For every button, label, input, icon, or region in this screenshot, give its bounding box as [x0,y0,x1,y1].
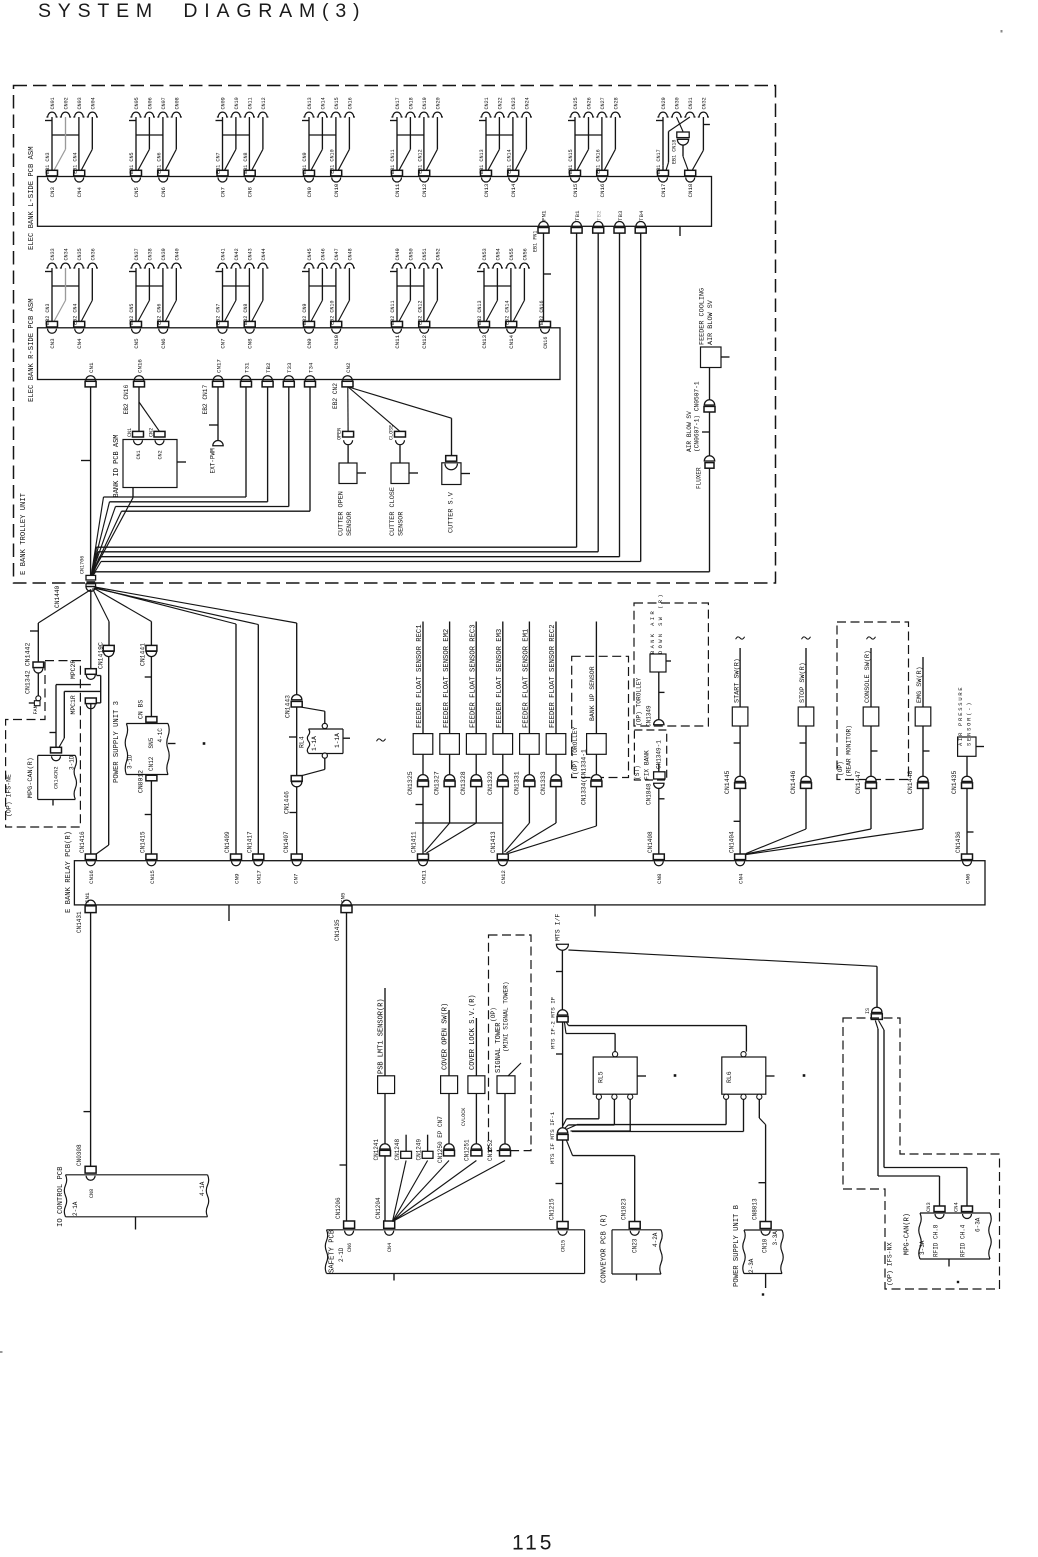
svg-text:CN8: CN8 [89,1189,95,1198]
wire CN8012 to CN1415 [145,781,152,854]
connector CN1206 on safety PCB [335,1197,355,1252]
svg-text:CN48: CN48 [347,248,353,260]
wire CN1706 to CN1441 [94,588,152,646]
svg-text:CN1252: CN1252 [487,1139,494,1161]
svg-text:CN6: CN6 [160,338,167,349]
connector TB1 on L-side bus bottom [571,210,582,233]
connector TB4 on L-side bus bottom [635,210,646,233]
svg-text:CN1325: CN1325 [407,771,414,795]
svg-text:CN2: CN2 [149,428,155,437]
svg-text:CN55: CN55 [509,248,515,260]
svg-text:CN1404: CN1404 [728,831,735,853]
svg-text:CN54: CN54 [495,248,501,260]
connector CN1248 stub [394,1135,412,1161]
svg-text:CN45: CN45 [307,248,313,260]
svg-text:2-1A: 2-1A [72,1201,79,1216]
connector group CN33-CN36 (EB2 CN3,EB2 CN4) [45,248,98,349]
svg-text:CN1431: CN1431 [76,911,83,933]
svg-text:EB1 CN10: EB1 CN10 [329,149,335,173]
connector fluxer [696,412,715,489]
svg-text:CN7: CN7 [220,338,227,349]
svg-text:DOWN SW (R): DOWN SW (R) [658,592,664,654]
svg-text:SENSOR(-): SENSOR(-) [967,701,973,746]
svg-text:CN1023: CN1023 [621,1198,628,1220]
svg-text:CN1215: CN1215 [549,1198,556,1220]
svg-text:EB2 CN10: EB2 CN10 [329,300,335,324]
svg-text:CN22: CN22 [497,97,503,109]
PSB LMT1 sensor(R) [373,988,395,1221]
svg-text:COVER OPEN SW(R): COVER OPEN SW(R) [442,1003,450,1070]
svg-text:CN1446: CN1446 [790,770,797,794]
wire feeder sensors to CN1411 [415,787,503,854]
svg-text:CN3: CN3 [926,1202,932,1212]
svg-text:CN06: CN06 [147,97,153,109]
connector CN1416 on relay bus [79,831,96,884]
continuation dot [203,742,206,745]
svg-text:CN1417: CN1417 [247,831,254,853]
svg-text:CN12: CN12 [500,870,507,884]
svg-text:T31: T31 [243,362,250,373]
svg-text:CN13: CN13 [483,183,490,197]
svg-text:CN20: CN20 [435,97,441,109]
svg-text:FAN: FAN [33,705,39,714]
svg-text:CN31: CN31 [688,97,694,109]
connector CN1204 on safety PCB [375,1197,395,1252]
svg-text:115: 115 [512,1532,554,1555]
svg-text:FIX BANK: FIX BANK [644,750,651,780]
svg-text:CN7: CN7 [220,187,227,198]
svg-text:CN1333: CN1333 [540,771,547,795]
svg-text:CN11: CN11 [420,870,427,884]
wire MTS IF-2 to RL5 RL6 [556,1022,746,1127]
svg-text:(ST): (ST) [634,765,641,780]
wire MTS IF-1 to CN1215 [556,1140,563,1221]
svg-text:CN50: CN50 [408,248,414,260]
svg-text:CN4: CN4 [76,338,83,349]
svg-text:EB1 CN8: EB1 CN8 [243,152,249,173]
feeder float sensor em1 [513,622,539,796]
svg-text:EB2 CN14: EB2 CN14 [504,300,510,324]
continuation dot [803,1074,806,1077]
connector CN1848 fix bank [646,764,666,805]
connector T31 on R-side bus bottom [241,362,252,387]
connector air blow SV (CN0607-1) [686,368,715,453]
relay RL6 [722,1052,775,1100]
svg-text:MPC1R: MPC1R [70,695,77,714]
svg-text:CN8: CN8 [247,338,254,349]
svg-text:CN11: CN11 [394,183,401,197]
feeder float sensor rec3 [460,622,486,796]
connector group CN41-CN44 (EB2 CN7,EB2 CN8) [216,248,269,349]
svg-text:CN5: CN5 [133,187,140,198]
svg-text:CN1248: CN1248 [394,1138,401,1160]
svg-text:BANK ID PCB ASM: BANK ID PCB ASM [113,434,121,497]
wire feeder sensors to CN1413 [503,787,556,854]
svg-text:EXT-PWM: EXT-PWM [209,448,216,474]
svg-text:3-3A: 3-3A [919,1240,926,1255]
connector CN1023 on conveyor PCB [621,1198,641,1229]
svg-text:CN1331: CN1331 [513,771,520,795]
svg-text:CN34: CN34 [64,248,70,260]
svg-text:CN23: CN23 [511,97,517,109]
feeder float sensor rec2 [540,622,566,796]
svg-text:EB2 CN17: EB2 CN17 [202,385,209,415]
wire CN1431 to CN0308 [84,913,91,1167]
svg-text:BANK UP SENSOR: BANK UP SENSOR [589,666,596,721]
svg-text:EB2 CN9: EB2 CN9 [302,303,308,324]
svg-text:EB1 CN5: EB1 CN5 [129,152,135,173]
svg-text:CN28: CN28 [613,97,619,109]
wire IS to CN3 [875,1020,939,1206]
connector group CN05-CN08 (EB1 CN5,EB1 CN6) [129,97,182,197]
svg-text:EB1 CN17: EB1 CN17 [656,149,662,173]
svg-text:CN09: CN09 [221,97,227,109]
svg-text:2-3A: 2-3A [748,1258,755,1273]
svg-text:CN1445: CN1445 [724,770,731,794]
wire TB4 to CN1706 [92,233,641,576]
connector group CN53-CN56 (EB2 CN13,EB2 CN14) [477,248,530,349]
svg-text:FLUXER: FLUXER [696,467,703,489]
svg-text:CN2: CN2 [345,362,352,373]
wire fluxer to CN1706 [93,468,710,576]
svg-text:CN11: CN11 [247,97,253,109]
svg-text:CN8012: CN8012 [138,770,145,793]
ELEC BANK L-SIDE PCB ASM bus bar [28,146,712,250]
svg-text:CN0308: CN0308 [76,1144,83,1166]
svg-text:CN21: CN21 [484,97,490,109]
svg-text:CN27: CN27 [600,97,606,109]
svg-text:CONVEYOR PCB (R): CONVEYOR PCB (R) [601,1214,609,1283]
wire MPC2R loop to MPC1R [96,676,100,703]
ELEC BANK R-SIDE PCB ASM bus bar [28,298,560,402]
connector CN1409 on relay bus [224,831,241,884]
svg-text:EB2 CN12: EB2 CN12 [417,300,423,324]
svg-text:CN BS: CN BS [138,700,145,719]
connector T34 on R-side bus bottom [305,362,316,387]
svg-text:TB1: TB1 [574,210,581,221]
svg-text:FEEDER FLOAT SENSOR EM3: FEEDER FLOAT SENSOR EM3 [496,629,504,728]
svg-text:CN42: CN42 [234,248,240,260]
svg-text:CN1443: CN1443 [285,695,292,718]
svg-text:(REAR MONITOR): (REAR MONITOR) [846,725,853,777]
svg-text:CN1334(CN1334-1: CN1334(CN1334-1 [581,749,588,805]
wire MTS I/F to IS [556,950,877,1010]
(OP) REAR MONITOR dashed enclosure [837,622,909,780]
svg-text:CN1441: CN1441 [140,643,147,666]
svg-text:CN1416: CN1416 [79,831,86,853]
svg-text:CN4: CN4 [738,873,745,884]
EXT-PWM connector [209,387,223,474]
air pressure sensor(-) [951,686,984,854]
svg-text:CN8: CN8 [247,187,254,198]
wire CN1706 to MPC2R [90,590,92,669]
svg-text:E BANK TROLLEY UNIT: E BANK TROLLEY UNIT [20,492,28,575]
svg-text:EB2 CN16: EB2 CN16 [539,300,545,324]
svg-text:CN11: CN11 [394,334,401,348]
connector TB2 on L-side bus bottom [593,210,604,233]
svg-text:(OP) IFS-NX: (OP) IFS-NX [887,1242,894,1286]
wire CN1 to CN1706 [81,387,91,575]
connector group CN29-CN32 (EB1 CN17,EB1 CN18) [656,97,710,197]
svg-text:MTS IF-2 MTS IF: MTS IF-2 MTS IF [550,996,557,1049]
wire CN1204 fan to cover/limit sensors [393,1161,506,1222]
svg-text:CN04: CN04 [90,97,96,109]
svg-text:PSB LMT1 SENSOR(R): PSB LMT1 SENSOR(R) [378,998,386,1074]
bank ID PCB ASM [113,387,186,498]
svg-text:CN4: CN4 [76,187,83,198]
svg-text:CN1328: CN1328 [460,771,467,795]
svg-text:EB1 CN12: EB1 CN12 [417,149,423,173]
cutter close sensor [389,425,418,536]
svg-text:CN01: CN01 [50,97,56,109]
svg-text:CN56: CN56 [522,248,528,260]
svg-text:EB1 CN11: EB1 CN11 [390,149,396,173]
svg-text:CN41: CN41 [221,248,227,260]
svg-text:CN1435: CN1435 [951,770,958,794]
connector CN4 on MPG-CAN [954,1202,973,1218]
connector CN0308 [76,1144,96,1198]
svg-text:CN2: CN2 [158,450,164,459]
svg-text:CN49: CN49 [395,248,401,260]
svg-text:POWER SUPPLY UNIT 3: POWER SUPPLY UNIT 3 [113,701,121,783]
E BANK RELAY PCB(R) bus bar [65,831,985,921]
connector CN8013 on power supply unit B [752,1198,772,1235]
svg-text:POWER SUPPLY UNIT B: POWER SUPPLY UNIT B [733,1204,741,1287]
svg-text:CN3: CN3 [49,338,56,349]
svg-text:TB4: TB4 [638,210,645,221]
wire CN1435 to CN1206 [340,913,347,1221]
svg-text:(OP): (OP) [490,1007,497,1022]
svg-text:CN10: CN10 [234,97,240,109]
connector CN1415 on relay bus [140,831,157,884]
svg-text:CN9: CN9 [233,873,240,884]
connector CN1215 on safety PCB [549,1198,569,1252]
connector T33 on R-side bus bottom [283,362,294,387]
connector CN1443 [285,695,303,776]
svg-text:(CN0607-1) CN0507-1: (CN0607-1) CN0507-1 [694,381,701,452]
connector group CN01-CN04 (EB1 CN3,EB1 CN4) [45,97,98,197]
svg-text:FEEDER COOLING: FEEDER COOLING [698,288,706,345]
wire MPC to MPG-CAN connector [50,685,101,749]
power supply unit B box [733,1204,783,1288]
svg-text:CN53: CN53 [482,248,488,260]
svg-text:1-1A: 1-1A [311,736,318,751]
svg-text:CN6: CN6 [160,187,167,198]
svg-text:CN46: CN46 [320,248,326,260]
EMG SW(R) [746,657,931,855]
safety PCB box [325,1229,584,1280]
svg-text:IS: IS [865,1008,871,1014]
svg-text:CN1409: CN1409 [224,831,231,853]
svg-text:CN14: CN14 [320,97,326,109]
connector CN1249 stub [415,1135,433,1161]
svg-text:4-1C: 4-1C [157,728,164,743]
svg-text:CUTTER CLOSE: CUTTER CLOSE [389,487,397,536]
svg-text:CN1329: CN1329 [487,771,494,795]
svg-text:EB1 CN16: EB1 CN16 [595,149,601,173]
wire CN1446 to CN1407 [290,787,297,854]
svg-text:CN02: CN02 [64,97,70,109]
connector CN17 on R-side bus bottom (EB2 CN17) [202,359,224,415]
svg-text:CN44: CN44 [261,248,267,260]
svg-text:TB2: TB2 [265,362,272,373]
svg-text:CN1448: CN1448 [907,770,914,794]
svg-text:RL6: RL6 [726,1071,733,1083]
svg-text:CN1251: CN1251 [463,1139,470,1161]
svg-text:CVLOCK: CVLOCK [461,1107,467,1126]
svg-text:CN1435: CN1435 [334,919,341,941]
svg-text:EB1 CN13: EB1 CN13 [479,149,485,173]
svg-text:CN52: CN52 [435,248,441,260]
svg-text:CN32: CN32 [701,97,707,109]
svg-text:CN24: CN24 [524,97,530,109]
svg-text:CN1: CN1 [127,428,133,437]
svg-text:EB2 CN7: EB2 CN7 [216,303,222,324]
svg-text:CN10: CN10 [762,1238,769,1253]
svg-text:CN8013: CN8013 [752,1198,759,1220]
wire EB2 CN2 fan to cutter sensors [348,387,452,456]
wire TB3 to CN1706 [92,233,619,576]
svg-text:CN12: CN12 [421,183,428,197]
svg-text:CN1342 CN1442: CN1342 CN1442 [25,643,32,694]
svg-text:CN10: CN10 [333,183,340,197]
connector CN1441 [140,643,157,666]
connector EB1 FN1 on L-side bus bottom [533,210,550,252]
paper speck left edge [0,1351,3,1353]
connector MPC1R [70,695,96,714]
svg-text:AIR BLOW SV: AIR BLOW SV [707,299,715,345]
svg-text:CN1415: CN1415 [140,831,147,853]
svg-text:CN40: CN40 [174,248,180,260]
svg-text:CN1436: CN1436 [955,831,962,853]
svg-text:BANK AIR: BANK AIR [650,609,656,654]
continuation dot [957,1281,959,1283]
connector IS [865,1007,882,1019]
AC tilde mark [377,739,386,741]
wire bank ID PCB to CN1706 [92,488,134,575]
connector CN1404 on relay bus [728,831,745,884]
wire CN1706 to CN1443 [95,587,297,695]
svg-text:EB1 CN3: EB1 CN3 [45,152,51,173]
svg-text:T33: T33 [286,362,293,373]
continuation dot [762,1293,764,1295]
svg-text:4-2A: 4-2A [652,1232,659,1247]
svg-text:CN07: CN07 [161,97,167,109]
svg-text:CN1407: CN1407 [283,831,290,853]
svg-text:CN3: CN3 [49,187,56,198]
svg-text:SENSOR: SENSOR [398,512,406,536]
svg-text:CN29: CN29 [661,97,667,109]
svg-text:SN5: SN5 [148,737,155,748]
connector CN1342 CN1442 (FAN) [25,643,44,715]
svg-text:MTS IF MTS IF-1: MTS IF MTS IF-1 [549,1111,556,1164]
wire T33 to CN1706 [91,387,288,575]
connector group CN49-CN52 (EB2 CN11,EB2 CN12) [390,248,443,349]
feeder float sensor em3 [487,622,513,796]
svg-text:CN17: CN17 [395,97,401,109]
svg-text:EB2 CN6: EB2 CN6 [156,303,162,324]
svg-text:3-3A: 3-3A [772,1231,779,1246]
svg-text:(MINI SIGNAL TOWER): (MINI SIGNAL TOWER) [502,981,509,1052]
wire TB2 to CN1706 [91,387,267,575]
stub below L-side bus [679,226,681,236]
connector CN1446 (RL4) [284,776,303,814]
svg-text:CN1: CN1 [84,892,91,903]
connector MPC2R [70,660,96,680]
svg-text:CN1419C: CN1419C [98,642,105,669]
svg-text:CN16: CN16 [88,870,95,884]
svg-text:RFID CH.4: RFID CH.4 [960,1224,967,1257]
svg-text:EB2 CN4: EB2 CN4 [72,303,78,324]
cover open SW(R) [437,1003,458,1163]
svg-text:START SW(R): START SW(R) [733,658,741,703]
svg-text:6-3A: 6-3A [975,1217,982,1232]
svg-text:CN8: CN8 [656,873,663,884]
(OP) IFS-NX dashed enclosure [843,1018,1000,1289]
connector CN2 on R-side bus bottom (EB2 CN2) [332,362,353,409]
connector CN1411 on relay bus [411,831,429,884]
relay RL4 [289,707,350,775]
connector EB2 CN16 on R-side bus top [539,300,551,348]
svg-text:RL4: RL4 [299,736,306,748]
feeder float sensor em2 [434,622,460,796]
svg-text:(OP) TOROLLEY: (OP) TOROLLEY [572,726,579,775]
(OP) TOROLLEY bank up sensor dashed enclosure [572,656,629,777]
svg-text:CN13: CN13 [307,97,313,109]
svg-text:CN1440: CN1440 [54,585,61,608]
start SW(R) [724,637,748,854]
svg-text:(OP): (OP) [837,761,844,776]
svg-text:CN15: CN15 [560,1240,566,1252]
wire CN1419C to CN1416 [96,657,109,855]
svg-text:EB1 CN18: EB1 CN18 [672,140,678,164]
svg-text:CN18: CN18 [408,97,414,109]
svg-text:CN1413: CN1413 [490,831,497,853]
bank up sensor [581,622,607,806]
svg-text:3-1D: 3-1D [69,755,76,770]
connector MTS IF-2 [550,996,569,1049]
svg-text:CN14: CN14 [508,334,515,348]
connector CN1706 [54,556,96,608]
svg-text:CN5: CN5 [340,892,347,903]
connector CN BS [138,700,157,723]
connector CN8012 [138,770,157,793]
svg-text:FEEDER FLOAT SENSOR EM2: FEEDER FLOAT SENSOR EM2 [443,629,451,728]
bank air down SW (R) [650,592,671,725]
power supply unit 3 box [113,701,176,783]
feeder cooling air blow SV [698,288,729,368]
svg-text:OPEN: OPEN [337,428,343,440]
svg-text:CN37: CN37 [134,248,140,260]
svg-text:EMG SW(R): EMG SW(R) [916,666,924,703]
svg-text:CN4: CN4 [954,1202,960,1212]
wire RL6 to CN8013 [759,1099,766,1221]
svg-text:EB2 CN13: EB2 CN13 [477,300,483,324]
svg-text:ELEC BANK R-SIDE PCB ASM: ELEC BANK R-SIDE PCB ASM [28,298,36,402]
connector CN5 on relay bus bottom [334,892,352,941]
connector CN1417 on relay bus [247,831,264,884]
svg-text:CN6: CN6 [964,873,971,884]
svg-text:CN47: CN47 [334,248,340,260]
svg-text:CN16: CN16 [136,359,143,373]
svg-text:CN5: CN5 [133,338,140,349]
svg-text:CN26: CN26 [587,97,593,109]
svg-text:EB2 CN11: EB2 CN11 [390,300,396,324]
svg-text:FN1: FN1 [541,210,548,221]
svg-text:EB1 CN7: EB1 CN7 [216,152,222,173]
paper speck top right [1001,30,1003,33]
svg-text:CN1241: CN1241 [373,1138,380,1160]
